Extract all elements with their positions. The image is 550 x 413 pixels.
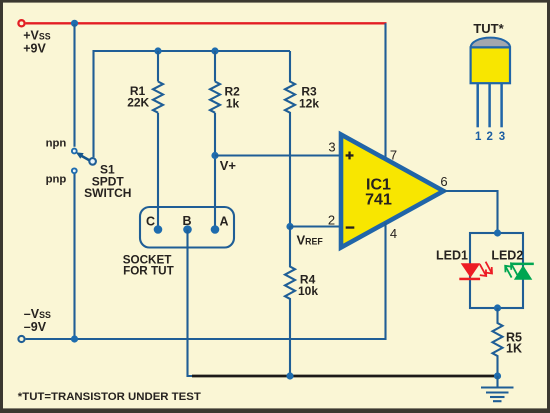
- op-amp minus sign: [346, 226, 355, 228]
- resistor R5: [493, 308, 503, 373]
- node: bus-R1 junction: [154, 47, 161, 54]
- wire: junction down to npn contact: [73, 24, 75, 147]
- switch S1 lever arrow: [76, 152, 90, 160]
- LED block box: [470, 233, 523, 308]
- resistor R3: [285, 51, 295, 226]
- LED2 (green): [513, 263, 534, 280]
- svg-text:*TUT=TRANSISTOR UNDER TEST: *TUT=TRANSISTOR UNDER TEST: [18, 391, 201, 403]
- socket pin B: [183, 225, 192, 234]
- transistor legs: [478, 84, 502, 128]
- LED1 (red): [459, 263, 480, 280]
- op-amp IC1: [341, 135, 444, 248]
- switch S1 pnp contact: [72, 168, 77, 173]
- -Vss rail to pin 4: [26, 223, 386, 340]
- svg-text:pnp: pnp: [46, 173, 67, 185]
- LED2 arrows: [505, 263, 517, 277]
- wire: pin 2 input: [290, 225, 341, 227]
- svg-text:SWITCH: SWITCH: [84, 186, 131, 200]
- wire: top bus with pole drop: [94, 51, 291, 157]
- svg-text:2: 2: [328, 213, 335, 228]
- LED1 arrows: [480, 262, 492, 276]
- svg-text:10k: 10k: [298, 284, 318, 298]
- wire: pin 6 output to LED block: [444, 191, 498, 233]
- svg-text:TUT*: TUT*: [473, 21, 504, 36]
- svg-text:LED1: LED1: [436, 248, 468, 262]
- pin labels 1 2 3: [475, 131, 505, 143]
- node: bus-R2 junction: [211, 47, 218, 54]
- node: LED bottom junction: [494, 304, 501, 311]
- socket for TUT: [140, 207, 234, 248]
- svg-text:741: 741: [365, 192, 392, 209]
- svg-text:B: B: [182, 214, 191, 228]
- svg-text:2: 2: [486, 131, 492, 143]
- svg-text:A: A: [219, 215, 228, 229]
- transistor body: [471, 47, 510, 83]
- svg-text:12k: 12k: [299, 97, 319, 111]
- resistor R4: [285, 227, 295, 377]
- svg-text:7: 7: [390, 148, 397, 163]
- ground symbol: [481, 376, 514, 401]
- -Vss terminal circle: [18, 336, 24, 342]
- svg-text:3: 3: [328, 140, 335, 155]
- ground bus (black): [192, 375, 498, 378]
- svg-text:1: 1: [475, 131, 482, 143]
- node: +Vss junction to switch: [71, 20, 78, 27]
- svg-text:+9V: +9V: [23, 41, 46, 55]
- svg-text:–VSS: –VSS: [24, 307, 51, 321]
- svg-text:V+: V+: [220, 158, 237, 173]
- svg-text:1k: 1k: [226, 96, 240, 110]
- svg-text:npn: npn: [46, 138, 67, 150]
- resistor R1: [153, 51, 163, 230]
- socket pin A: [211, 225, 220, 234]
- node: V+ junction: [211, 152, 218, 159]
- svg-text:6: 6: [440, 174, 447, 189]
- wire: pnp contact down to -Vss rail: [73, 174, 75, 339]
- wire: red rail to pin 7: [384, 23, 386, 159]
- op-amp plus sign: [346, 152, 354, 160]
- svg-text:C: C: [146, 215, 155, 229]
- node: ground junction: [494, 372, 501, 379]
- svg-text:3: 3: [499, 131, 505, 143]
- resistor R2: [210, 51, 220, 230]
- wire: socket B down to ground line: [188, 230, 195, 377]
- svg-text:22K: 22K: [127, 95, 149, 109]
- switch S1 npn contact: [72, 149, 77, 154]
- node: -Vss junction: [71, 335, 78, 342]
- transistor dome: [471, 38, 510, 48]
- +Vss rail (red): [18, 20, 386, 26]
- switch S1 pole: [89, 158, 96, 165]
- node: R4 bottom junction: [286, 372, 293, 379]
- svg-text:1K: 1K: [506, 341, 522, 355]
- svg-text:LED2: LED2: [491, 248, 523, 262]
- wire: pin 3 input: [215, 154, 341, 156]
- svg-text:4: 4: [390, 226, 397, 241]
- svg-text:FOR TUT: FOR TUT: [123, 265, 174, 278]
- socket pin C: [154, 225, 163, 234]
- svg-text:–9V: –9V: [24, 320, 47, 334]
- node: LED top junction: [494, 229, 501, 236]
- node: Vref junction: [286, 223, 293, 230]
